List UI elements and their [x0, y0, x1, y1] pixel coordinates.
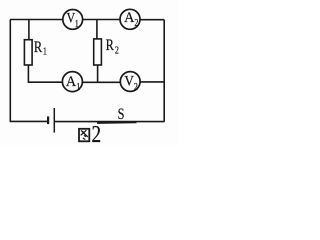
svg-text:2: 2 — [92, 121, 102, 145]
svg-text:R: R — [34, 39, 43, 57]
svg-text:2: 2 — [115, 44, 119, 55]
svg-text:R: R — [106, 37, 115, 55]
svg-text:2: 2 — [134, 81, 138, 92]
svg-text:1: 1 — [76, 81, 80, 92]
svg-text:A: A — [124, 9, 135, 25]
svg-text:2: 2 — [134, 17, 138, 28]
svg-text:A: A — [66, 73, 77, 89]
svg-text:1: 1 — [75, 18, 79, 29]
svg-text:1: 1 — [43, 46, 47, 57]
svg-text:S: S — [118, 106, 125, 123]
